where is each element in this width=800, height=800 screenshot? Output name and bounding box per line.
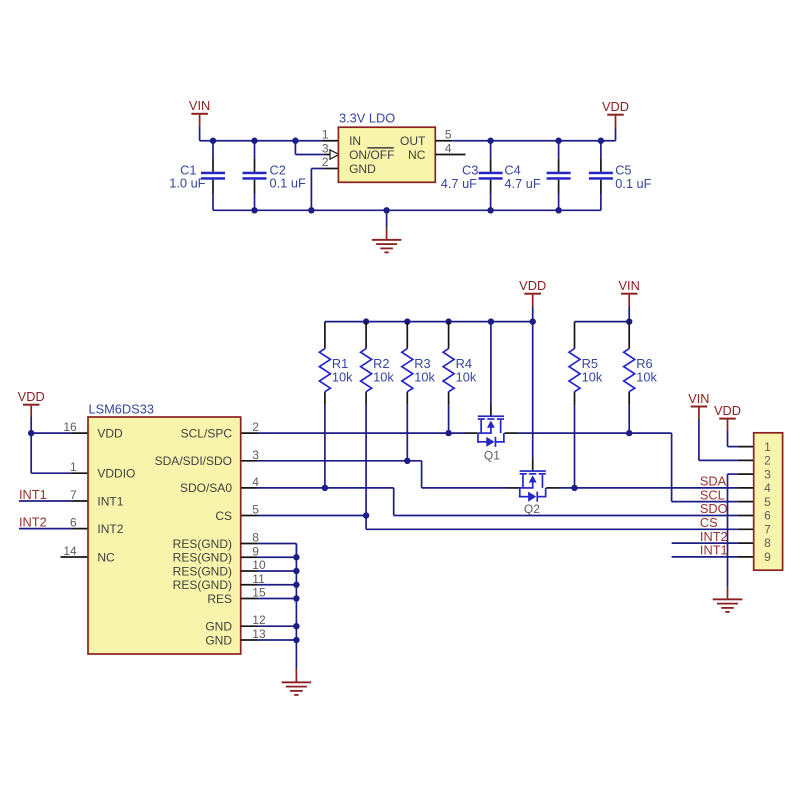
svg-text:LSM6DS33: LSM6DS33 <box>89 402 154 417</box>
wire SDO/SA0: IC pin 4 jog down <box>241 488 394 516</box>
svg-text:GND: GND <box>349 162 376 176</box>
resistor R5 <box>569 322 580 406</box>
svg-text:2: 2 <box>764 454 771 468</box>
svg-text:14: 14 <box>63 544 77 558</box>
transistor Q2 <box>519 470 547 516</box>
label R4 10k <box>456 356 477 384</box>
junction R2 top <box>363 318 369 324</box>
wire LDO pin 3 ON/OFF <box>295 141 339 159</box>
capacitor C1 <box>201 141 225 211</box>
wire VIN supply stub <box>199 115 201 141</box>
wire IC pin 11 RES(GND) <box>241 584 297 586</box>
junction VDD / Q2 gate feed <box>530 318 536 324</box>
supply VDD (pull-up rail) <box>519 278 546 295</box>
svg-text:6: 6 <box>764 509 771 523</box>
junction Q1 gate feed <box>488 318 494 324</box>
ground (below connector) <box>713 598 743 612</box>
svg-text:7: 7 <box>764 522 771 536</box>
svg-text:SCL/SPC: SCL/SPC <box>181 426 233 440</box>
wire output rail LDO pin 5 to VDD <box>435 140 615 142</box>
label C2 value <box>270 163 306 191</box>
svg-text:VDD: VDD <box>602 99 629 114</box>
wire pull-up rail R1..R4/VDD <box>325 321 533 323</box>
svg-text:13: 13 <box>252 627 266 641</box>
IC U2 LSM6DS33 <box>88 402 241 654</box>
junction pin 10 bus <box>293 568 299 574</box>
svg-text:10k: 10k <box>636 369 657 384</box>
svg-text:INT2: INT2 <box>19 515 47 530</box>
svg-text:RES(GND): RES(GND) <box>173 551 232 565</box>
svg-text:SCL: SCL <box>700 487 725 502</box>
ground (top section) <box>372 239 402 253</box>
junction C5 top <box>598 138 604 144</box>
supply VDD (left of IC) <box>18 389 45 406</box>
wire IC pin 8 RES(GND) <box>241 544 297 558</box>
junction VDD/VDDIO branch <box>28 430 34 436</box>
svg-text:5: 5 <box>764 495 771 509</box>
svg-text:RES(GND): RES(GND) <box>173 578 232 592</box>
svg-text:3: 3 <box>764 467 771 481</box>
junction R2 / CS <box>363 512 369 518</box>
label R5 10k <box>582 356 603 384</box>
svg-text:NC: NC <box>97 550 115 564</box>
svg-text:INT2: INT2 <box>97 522 123 536</box>
ground (below IC) <box>282 681 312 695</box>
label C4 value <box>504 162 540 191</box>
capacitor C3 <box>479 141 503 211</box>
wire R5 bottom to SDA row <box>574 405 576 488</box>
svg-text:10k: 10k <box>456 369 477 384</box>
junction ON/OFF branch <box>292 138 298 144</box>
svg-text:SDO: SDO <box>700 501 728 516</box>
wire INT1 run to connector pin 9 <box>672 556 754 558</box>
wire VDD mid supply stub <box>532 295 534 322</box>
junction pin 11 bus <box>293 582 299 588</box>
wire IC pin 14 NC stub <box>61 556 89 558</box>
wire VDD left stub <box>30 406 32 434</box>
resistor R6 <box>624 322 635 406</box>
svg-text:4.7 uF: 4.7 uF <box>441 176 477 191</box>
svg-text:8: 8 <box>764 536 771 550</box>
connector J1 <box>754 433 783 570</box>
svg-text:Q2: Q2 <box>524 502 540 516</box>
junction R1 / SDO-SA0 <box>322 485 328 491</box>
wire SCL: Q1 to connector pin 5 <box>505 433 754 502</box>
svg-text:INT1: INT1 <box>19 487 47 502</box>
junction R6 / SCL <box>626 430 632 436</box>
wire VDD right to connector pin 1 <box>728 420 754 447</box>
transistor Q1 <box>477 415 505 462</box>
svg-text:1: 1 <box>70 460 77 474</box>
svg-text:10k: 10k <box>373 369 394 384</box>
wire CS run to connector pin 7 <box>366 516 754 530</box>
wire IC pin 7 INT1 <box>19 500 88 502</box>
svg-text:INT2: INT2 <box>700 529 728 544</box>
svg-text:3: 3 <box>322 141 329 155</box>
supply VDD (top) <box>602 99 629 116</box>
capacitor C5 <box>589 141 613 211</box>
junction C2 top <box>251 138 257 144</box>
wire LDO pin 4 NC stub <box>435 154 465 156</box>
svg-text:4: 4 <box>445 141 452 155</box>
svg-text:4.7 uF: 4.7 uF <box>504 176 540 191</box>
svg-text:0.1 uF: 0.1 uF <box>270 175 306 190</box>
svg-text:6: 6 <box>70 516 77 530</box>
supply VIN (R5/R6 rail) <box>619 278 640 295</box>
junction C3 top <box>487 138 493 144</box>
svg-text:SDO/SA0: SDO/SA0 <box>180 481 232 495</box>
svg-text:4: 4 <box>764 481 771 495</box>
wire R4 bottom to SCL row <box>448 405 450 433</box>
capacitor C2 <box>243 141 267 211</box>
junction C3 bottom <box>487 207 493 213</box>
svg-text:CS: CS <box>700 515 718 530</box>
wire SDA: IC pin 3 to Q2 <box>241 461 520 488</box>
label R2 10k <box>373 356 394 384</box>
label R6 10k <box>636 356 657 384</box>
wire ground bus vertical <box>295 544 297 682</box>
svg-text:VDD: VDD <box>97 426 123 440</box>
svg-text:7: 7 <box>70 488 77 502</box>
wire IC pin 10 RES(GND) <box>241 570 297 572</box>
junction R4 / SCL <box>445 430 451 436</box>
resistor R3 <box>402 322 413 406</box>
svg-text:3.3V LDO: 3.3V LDO <box>339 111 395 126</box>
svg-text:OUT: OUT <box>400 134 426 148</box>
svg-text:INT1: INT1 <box>97 494 123 508</box>
svg-text:3: 3 <box>252 448 259 462</box>
svg-text:1: 1 <box>322 128 329 142</box>
junction R6 top / VIN <box>626 318 632 324</box>
supply VDD (right) <box>714 403 741 420</box>
svg-text:IN: IN <box>349 134 361 148</box>
svg-text:8: 8 <box>252 531 259 545</box>
wire Q2 gate feed (crosses SCL) <box>532 322 534 471</box>
svg-text:VDD: VDD <box>714 403 741 418</box>
svg-text:2: 2 <box>322 155 329 169</box>
voltage regulator U1 3.3V LDO <box>338 111 435 183</box>
wire IC pin 9 RES(GND) <box>241 556 297 558</box>
svg-text:GND: GND <box>205 633 232 647</box>
wire IC pin 15 RES <box>241 598 297 600</box>
svg-text:15: 15 <box>252 586 266 600</box>
wire IC pin 13 GND <box>241 639 297 641</box>
junction ground stub <box>383 207 389 213</box>
label C1 value <box>169 163 205 191</box>
resistor R1 <box>319 322 330 406</box>
svg-text:SDA: SDA <box>700 474 727 489</box>
svg-text:RES(GND): RES(GND) <box>173 537 232 551</box>
wire IC pin 6 INT2 <box>19 528 88 530</box>
svg-text:VIN: VIN <box>688 391 709 406</box>
svg-text:RES(GND): RES(GND) <box>173 564 232 578</box>
wire VIN rail R5/R6 <box>575 321 630 323</box>
svg-text:GND: GND <box>205 620 232 634</box>
supply VIN (right) <box>688 391 709 408</box>
wire connector pin 3 GND <box>728 474 754 598</box>
svg-text:0.1 uF: 0.1 uF <box>615 176 651 191</box>
svg-text:4: 4 <box>252 475 259 489</box>
junction pin 13 bus <box>293 637 299 643</box>
svg-text:1.0 uF: 1.0 uF <box>169 175 205 190</box>
junction C1 top <box>210 138 216 144</box>
svg-text:12: 12 <box>252 613 266 627</box>
svg-text:VIN: VIN <box>619 278 640 293</box>
label C5 value <box>615 162 651 191</box>
wire bottom ground rail <box>213 209 601 211</box>
label C3 value <box>441 162 479 191</box>
junction pin 15 bus <box>293 595 299 601</box>
wire Q1 gate feed <box>490 322 492 416</box>
svg-text:16: 16 <box>63 420 77 434</box>
wire VIN right to connector pin 2 <box>699 407 754 460</box>
svg-text:10: 10 <box>252 558 266 572</box>
wire top rail VIN to LDO pin 1 <box>200 140 339 142</box>
junction R3 / SDA <box>404 458 410 464</box>
supply VIN (top) <box>189 98 210 115</box>
svg-text:11: 11 <box>252 572 265 586</box>
svg-text:NC: NC <box>408 148 426 162</box>
svg-text:ON/OFF: ON/OFF <box>349 148 394 162</box>
junction C4 bottom <box>555 207 561 213</box>
svg-text:VIN: VIN <box>189 98 210 113</box>
wire IC pin 1 VDDIO <box>31 433 88 473</box>
svg-text:10k: 10k <box>332 369 353 384</box>
junction pin 12 bus <box>293 623 299 629</box>
junction R3 top <box>404 318 410 324</box>
wire ground stub <box>386 210 388 239</box>
junction C2 bottom <box>251 207 257 213</box>
junction R4 top <box>445 318 451 324</box>
wire SCL: IC pin 2 to Q1 <box>241 432 478 434</box>
wire SDO run to connector pin 6 <box>394 515 754 517</box>
wire LDO pin 2 GND to bottom rail <box>311 169 338 211</box>
label R1 10k <box>332 356 353 384</box>
wire VIN mid supply stub <box>628 295 630 322</box>
capacitor C4 <box>547 141 571 211</box>
svg-text:VDD: VDD <box>519 278 546 293</box>
svg-text:10k: 10k <box>414 369 435 384</box>
svg-text:10k: 10k <box>582 369 603 384</box>
svg-text:RES: RES <box>207 592 232 606</box>
wire R6 bottom to SCL row <box>628 405 630 433</box>
svg-text:9: 9 <box>764 550 771 564</box>
svg-text:VDD: VDD <box>18 389 45 404</box>
wire INT2 run to connector pin 8 <box>672 542 754 544</box>
wire SDA: Q2 to connector pin 4 <box>546 487 754 489</box>
svg-text:CS: CS <box>215 509 232 523</box>
wire IC pin 12 GND <box>241 625 297 627</box>
svg-text:SDA/SDI/SDO: SDA/SDI/SDO <box>155 454 232 468</box>
svg-text:5: 5 <box>252 503 259 517</box>
wire IC pin 16 VDD <box>31 432 88 434</box>
wire CS: IC pin 5 to R2 <box>241 515 366 517</box>
junction R5 / SDA <box>571 485 577 491</box>
svg-text:VDDIO: VDDIO <box>97 467 135 481</box>
wire R1 bottom to SDO/SA0 row <box>324 405 326 488</box>
svg-text:INT1: INT1 <box>700 543 728 558</box>
wire R3 bottom to SDA row <box>406 405 408 461</box>
junction C4 top <box>555 138 561 144</box>
label R3 10k <box>414 356 435 384</box>
svg-text:2: 2 <box>252 420 259 434</box>
wire VDD supply stub <box>615 116 617 141</box>
wire R2 bottom to CS row <box>365 405 367 515</box>
junction pin 9 bus <box>293 554 299 560</box>
svg-text:5: 5 <box>445 128 452 142</box>
junction LDO GND <box>308 207 314 213</box>
svg-text:Q1: Q1 <box>484 448 500 462</box>
resistor R2 <box>361 322 372 406</box>
svg-text:9: 9 <box>252 544 259 558</box>
svg-text:1: 1 <box>764 440 771 454</box>
resistor R4 <box>443 322 454 406</box>
